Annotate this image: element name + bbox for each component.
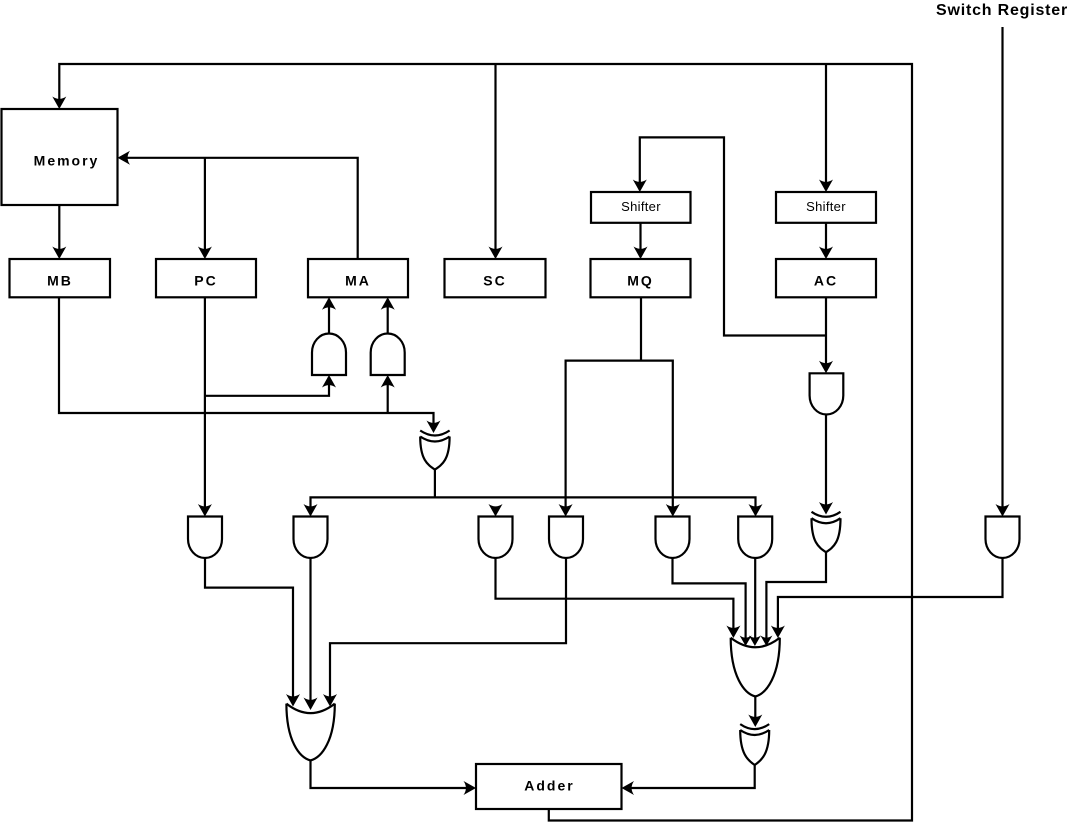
arrowhead into gate 672 xyxy=(666,504,680,517)
wire gate 566 output to left OR xyxy=(330,559,566,705)
arrowhead into gate 566 xyxy=(559,504,573,517)
svg-text:SC: SC xyxy=(483,273,506,289)
wire Shifter to AC xyxy=(825,223,827,257)
arrowhead left OR into Adder xyxy=(464,781,477,795)
wire MQ split xyxy=(566,297,673,514)
wire branch PC to left AND gate xyxy=(205,377,329,396)
xor-gate U1 at 435 xyxy=(420,431,449,470)
and-gate down row at 495 xyxy=(479,517,513,559)
svg-text:MA: MA xyxy=(345,273,371,289)
wire branch top bus to AC Shifter xyxy=(825,64,827,190)
and-gate down row at 205 xyxy=(188,517,222,559)
and-gate down below AC xyxy=(810,373,844,414)
or-gate left xyxy=(286,704,334,761)
xor-gate small below right OR xyxy=(740,724,769,765)
box MB xyxy=(10,259,111,297)
wire Memory to MB xyxy=(58,205,60,257)
wire gate 205 output to left OR xyxy=(205,559,293,705)
box MA xyxy=(308,259,408,297)
and-gate down row at 672 xyxy=(656,517,690,559)
arrowhead small xor into Adder xyxy=(622,781,635,795)
wire right AND gate to MA xyxy=(387,299,389,334)
wire AC junction to MQ Shifter xyxy=(640,137,826,335)
wire xor U1 output to distribution line xyxy=(434,470,436,498)
wire PC down to and-gate xyxy=(204,297,206,514)
box Memory xyxy=(2,109,118,205)
svg-text:Shifter: Shifter xyxy=(621,199,661,214)
box AC xyxy=(776,259,876,297)
wire left OR output to Adder xyxy=(311,761,474,789)
wire gate 310 output to left OR xyxy=(309,559,311,708)
and-gate up G2 under MA xyxy=(371,334,405,376)
arrowhead into switch gate xyxy=(996,504,1010,517)
box SC xyxy=(445,259,546,297)
box MQ xyxy=(591,259,691,297)
arrowhead into AC Shifter top xyxy=(819,180,833,193)
xor-gate row at 826 xyxy=(812,512,841,552)
wire left AND gate to MA xyxy=(328,299,330,334)
box PC xyxy=(156,259,256,297)
arrowhead gate 566 into left OR xyxy=(323,694,337,707)
arrowhead into xor 826 xyxy=(819,502,833,515)
svg-text:AC: AC xyxy=(814,273,838,289)
arrowhead line A into right OR xyxy=(726,626,740,639)
arrowhead left AND to MA xyxy=(322,297,336,310)
wire branch top bus to SC xyxy=(494,64,496,257)
and-gate down row at 566 xyxy=(549,517,583,559)
arrowhead into PC top xyxy=(198,247,212,260)
and-gate down row at 755 xyxy=(738,517,772,559)
arrowhead right OR into small xor xyxy=(748,715,762,728)
box Shifter (AC) xyxy=(776,192,876,223)
and-gate up G1 under MA xyxy=(312,334,346,376)
or-gate right xyxy=(731,638,780,697)
svg-text:Adder: Adder xyxy=(524,778,574,794)
wire gate 495 output line A to right OR xyxy=(496,559,734,637)
arrowhead into MQ top xyxy=(634,247,648,260)
arrowhead into gate 205 xyxy=(198,504,212,517)
arrowhead xor 826 into right OR xyxy=(760,636,772,647)
svg-text:Shifter: Shifter xyxy=(806,199,846,214)
arrowhead into gate 495 xyxy=(489,504,503,517)
arrowhead into AC top xyxy=(819,247,833,260)
svg-text:PC: PC xyxy=(194,273,217,289)
arrowhead into Memory top xyxy=(52,97,66,110)
arrowhead gate 672 into right OR xyxy=(740,636,752,647)
arrowhead into SC top xyxy=(489,247,503,260)
svg-text:MB: MB xyxy=(47,273,73,289)
arrowhead right AND to MA xyxy=(381,297,395,310)
wire AC to and-gate below xyxy=(825,297,827,371)
wire gate 755 output to right OR xyxy=(754,559,756,644)
wire branch to PC xyxy=(204,158,206,257)
arrowhead line B into right OR xyxy=(771,626,785,639)
wire MB bus xyxy=(59,297,434,430)
arrowhead into left AND gate xyxy=(322,375,336,388)
wire gate 672 output to right OR xyxy=(673,559,746,644)
wire right OR output to small xor xyxy=(754,697,756,725)
arrowhead into gate 310 xyxy=(304,504,318,517)
wire distribution line xyxy=(311,497,756,514)
arrowhead gate 755 into right OR xyxy=(749,636,761,647)
wire xor 826 output to right OR xyxy=(766,552,826,643)
wire AC and-gate output to xor xyxy=(825,415,827,513)
wire Switch Register line xyxy=(1001,27,1003,515)
wire small xor output to Adder xyxy=(625,765,755,788)
box Adder xyxy=(476,764,622,809)
wire MA to Memory xyxy=(120,158,358,259)
arrowhead into Memory right xyxy=(118,151,131,165)
wire switch gate output line B to right OR xyxy=(778,559,1003,637)
arrowhead gate 310 into left OR xyxy=(304,698,318,711)
wire branch MB bus to right AND gate xyxy=(387,377,389,413)
arrowhead into AC and-gate xyxy=(819,361,833,374)
svg-text:Memory: Memory xyxy=(34,153,100,169)
arrowhead into MQ Shifter top xyxy=(633,180,647,193)
arrowhead into right AND gate xyxy=(381,375,395,388)
wire Shifter to MQ xyxy=(639,223,641,257)
arrowhead into gate 755 xyxy=(749,504,763,517)
arrowhead into xor U1 top xyxy=(427,421,441,434)
and-gate down row at 1002 xyxy=(986,517,1020,559)
svg-text:MQ: MQ xyxy=(627,273,654,289)
arrowhead gate 205 into left OR xyxy=(286,694,300,707)
arrowhead into MB top xyxy=(52,247,66,260)
wire top bus feedback loop Adder to Memory xyxy=(59,64,912,821)
box Shifter (MQ) xyxy=(591,192,691,223)
and-gate down row at 310 xyxy=(294,517,328,559)
svg-text:Switch Register: Switch Register xyxy=(936,2,1068,19)
